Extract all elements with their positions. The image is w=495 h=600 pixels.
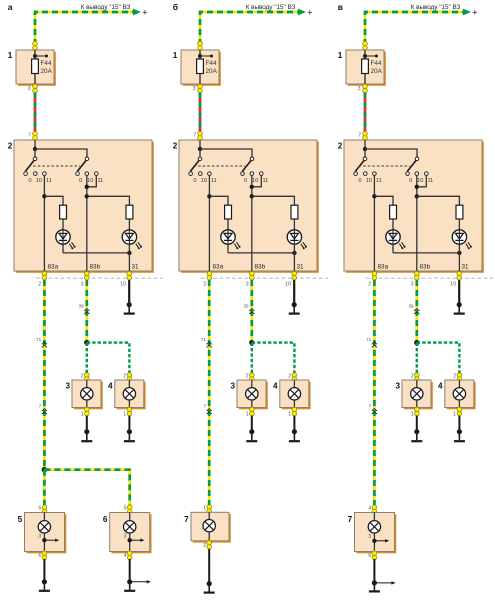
wire LED left to terminal 31 rail (б) xyxy=(228,244,297,255)
switch throw contacts 0 10 11 in box 2 (в) xyxy=(354,172,434,184)
pin 1 at top of lamp box 7 (б) xyxy=(203,505,211,514)
switch pole contacts (pivots) in box 2 (б) xyxy=(198,157,254,161)
junction node to lamps 5 and 6 (а) xyxy=(42,467,48,473)
ground of lamp 7 with branch arrow (в) xyxy=(369,559,396,591)
lamp symbol in box 4 (в) xyxy=(453,380,465,408)
svg-text:6: 6 xyxy=(103,515,108,524)
svg-text:4: 4 xyxy=(273,381,278,390)
lamp symbol in box 3 (в) xyxy=(411,380,423,408)
svg-text:3: 3 xyxy=(230,381,235,390)
pins 2 3 10 under box 2 (б) xyxy=(203,271,296,287)
wire: green to lamp 4 (в) xyxy=(417,343,460,374)
svg-text:К выводу "15" ВЗ: К выводу "15" ВЗ xyxy=(246,4,296,11)
svg-text:0: 0 xyxy=(358,178,361,184)
wire contacts 10-11 to terminal 83b in box 2 (в) xyxy=(415,176,460,271)
svg-text:1: 1 xyxy=(8,51,13,60)
svg-text:3: 3 xyxy=(395,381,400,390)
svg-text:20A: 20A xyxy=(371,68,383,75)
svg-text:3: 3 xyxy=(358,86,361,92)
pin 1 at bottom of lamp box 3 (в) xyxy=(411,407,419,417)
svg-text:11: 11 xyxy=(427,178,433,184)
svg-text:в: в xyxy=(338,2,343,12)
wire junction marker 71 (б) xyxy=(201,337,212,348)
pin 2 at top of lamp box 3 (б) xyxy=(246,373,254,382)
switch feed bus inside box 2 (б) xyxy=(198,140,252,157)
pin at top of fuse box 1 (в) xyxy=(363,41,368,50)
svg-text:1: 1 xyxy=(203,505,206,511)
svg-text:2: 2 xyxy=(123,374,126,380)
svg-text:10: 10 xyxy=(36,178,42,184)
switch throw contacts 0 10 11 in box 2 (б) xyxy=(189,172,269,184)
svg-text:7: 7 xyxy=(358,132,361,138)
svg-text:4: 4 xyxy=(368,506,371,512)
svg-text:б: б xyxy=(173,2,178,12)
svg-text:2: 2 xyxy=(288,374,291,380)
svg-text:83b: 83b xyxy=(90,264,101,271)
wire: green-yellow to lamp 5 (а) xyxy=(43,470,46,506)
svg-text:+: + xyxy=(142,7,147,17)
junction node of lamp feed (в) xyxy=(414,340,419,345)
lamp box 6 (а) xyxy=(103,513,152,554)
terminal labels 83a 83b 31 (в) xyxy=(378,264,470,271)
svg-text:31: 31 xyxy=(462,264,470,271)
svg-text:+: + xyxy=(472,7,477,17)
resistor right in box 2 (а) xyxy=(126,205,133,219)
pin 7 at top of switch box 2 (а) xyxy=(28,131,37,140)
svg-text:+: + xyxy=(307,7,312,17)
lamp symbol in box 3 (а) xyxy=(81,380,93,408)
svg-text:2: 2 xyxy=(368,282,371,288)
svg-text:1: 1 xyxy=(173,51,178,60)
wire LED left to terminal 31 rail (в) xyxy=(393,244,462,255)
LED left in box 2 (в) xyxy=(386,230,406,250)
lamp symbol in box 3 (б) xyxy=(246,380,258,408)
svg-text:10: 10 xyxy=(417,178,423,184)
wire: green-yellow to lamp 6 (а) xyxy=(44,470,129,506)
svg-text:6: 6 xyxy=(38,553,41,559)
wire junction marker 71 (в) xyxy=(366,337,377,348)
switch throw contacts 0 10 11 in box 2 (а) xyxy=(24,172,104,184)
lamp symbol in box 6 (а) xyxy=(124,513,136,552)
svg-text:3: 3 xyxy=(65,381,70,390)
lamp box 4 (в) xyxy=(438,380,476,409)
wire resistor to LED left (в) xyxy=(392,219,394,230)
svg-text:10: 10 xyxy=(450,282,456,288)
svg-text:3: 3 xyxy=(193,86,196,92)
lamp box 3 (а) xyxy=(65,380,102,409)
wire: green to lamp 3 (б) xyxy=(251,343,253,374)
pin 6 at bottom of lamp box 5 (а) xyxy=(38,551,46,560)
wire junction marker 39 (а) xyxy=(78,303,89,314)
plus terminal symbol (в) xyxy=(472,7,477,17)
svg-text:1: 1 xyxy=(81,411,84,417)
internal tap 3 with arrow in box 6 (а) xyxy=(124,534,145,543)
pin 2 at top of lamp box 3 (а) xyxy=(81,373,89,382)
fuse F44 20A symbol (в) xyxy=(362,50,383,84)
wire resistor to LED right (в) xyxy=(458,219,460,230)
svg-text:11: 11 xyxy=(211,178,217,184)
lamp box 5 (а) xyxy=(18,513,67,554)
wire: green-yellow from pin 3 of switch (в) xyxy=(415,280,418,341)
svg-text:20A: 20A xyxy=(206,68,218,75)
connector dashed separation line (б) xyxy=(201,277,328,279)
wire LED right to terminal 31 (а) xyxy=(128,244,130,271)
lamp symbol in box 4 (б) xyxy=(288,380,300,408)
label: К выводу 15 ВЗ (б) xyxy=(246,4,296,11)
wire: black from pin 10 to ground (а) xyxy=(128,280,130,305)
svg-text:К выводу "15" ВЗ: К выводу "15" ВЗ xyxy=(81,4,131,11)
wire contacts 10-11 to terminal 83b in box 2 (б) xyxy=(250,176,295,271)
svg-text:7: 7 xyxy=(369,403,372,408)
svg-text:6: 6 xyxy=(368,553,371,559)
svg-text:F44: F44 xyxy=(41,60,52,67)
lamp box 4 (а) xyxy=(108,380,146,409)
svg-text:2: 2 xyxy=(8,142,13,151)
fuse F44 20A symbol (б) xyxy=(197,50,218,84)
svg-text:7: 7 xyxy=(203,403,206,408)
light switch box 2 (б) xyxy=(173,140,319,273)
svg-text:11: 11 xyxy=(97,178,103,184)
ground of lamp 4 (в) xyxy=(454,416,465,442)
svg-text:3: 3 xyxy=(38,534,41,540)
svg-text:3: 3 xyxy=(124,534,127,540)
ground of lamp 6 with branch arrow (а) xyxy=(124,559,151,591)
fuse box 1 (fuse F44) (а) xyxy=(8,50,56,86)
wire to terminal 83a in box 2 (в) xyxy=(372,176,393,271)
svg-text:5: 5 xyxy=(18,515,23,524)
wire: green-yellow from pin 3 of switch (а) xyxy=(85,280,88,341)
wire junction marker 39 (б) xyxy=(243,303,254,314)
wire: green to lamp 3 (а) xyxy=(86,343,88,374)
terminal labels 83a 83b 31 (а) xyxy=(48,264,140,271)
arrowhead to +15 supply (б) xyxy=(298,9,306,16)
switch feed bus inside box 2 (а) xyxy=(33,140,87,157)
switch levers in box 2 (б) xyxy=(190,161,251,172)
wire: black from pin 10 to ground (б) xyxy=(293,280,295,305)
svg-text:10: 10 xyxy=(285,282,291,288)
svg-text:1: 1 xyxy=(453,411,456,417)
LED left in box 2 (а) xyxy=(56,230,76,250)
column label а xyxy=(8,2,13,12)
svg-text:0: 0 xyxy=(28,178,31,184)
wire: green to lamp 4 (б) xyxy=(252,343,295,374)
arrowhead to +15 supply (а) xyxy=(133,9,141,16)
ground of lamp 4 (б) xyxy=(289,416,300,442)
resistor left in box 2 (в) xyxy=(390,205,397,219)
ground of lamp 3 (а) xyxy=(81,416,92,442)
pin 4 at bottom of lamp box 6 (а) xyxy=(124,551,132,560)
svg-text:11: 11 xyxy=(262,178,268,184)
svg-text:31: 31 xyxy=(132,264,140,271)
wire resistor to LED right (а) xyxy=(128,219,130,230)
lamp box 7 (б) xyxy=(184,512,231,542)
lamp box 3 (в) xyxy=(395,380,432,409)
svg-text:71: 71 xyxy=(201,337,207,342)
svg-text:1: 1 xyxy=(246,411,249,417)
svg-text:31: 31 xyxy=(297,264,305,271)
svg-text:1: 1 xyxy=(411,411,414,417)
svg-text:2: 2 xyxy=(411,374,414,380)
svg-text:3: 3 xyxy=(246,282,249,288)
pin 5 at top of lamp box 6 (а) xyxy=(124,505,132,514)
resistor right in box 2 (в) xyxy=(456,205,463,219)
svg-text:2: 2 xyxy=(81,374,84,380)
pin 1 at bottom of lamp box 3 (б) xyxy=(246,407,254,417)
svg-text:0: 0 xyxy=(193,178,196,184)
wire: green-yellow feed to ignition terminal 15 (а) xyxy=(35,12,134,45)
lamp symbol in box 5 (а) xyxy=(38,513,50,552)
internal tap 3 with arrow in box 5 (а) xyxy=(38,534,59,543)
lamp symbol in box 4 (а) xyxy=(123,380,135,408)
LED right in box 2 (б) xyxy=(287,230,307,250)
lamp box 4 (б) xyxy=(273,380,311,409)
ground of lamp 3 (в) xyxy=(411,416,422,442)
pins 2 3 10 under box 2 (а) xyxy=(38,271,131,287)
svg-text:4: 4 xyxy=(438,381,443,390)
ground of switch pin 10 (а) xyxy=(124,302,135,314)
svg-text:39: 39 xyxy=(408,303,414,308)
wire contacts 10-11 to terminal 83b in box 2 (а) xyxy=(85,176,130,271)
svg-text:0: 0 xyxy=(409,178,412,184)
column label в xyxy=(338,2,343,12)
svg-text:3: 3 xyxy=(81,282,84,288)
LED right in box 2 (в) xyxy=(452,230,472,250)
fuse F44 20A symbol (а) xyxy=(32,50,53,84)
connector dashed separation line (в) xyxy=(366,277,493,279)
wire: green to lamp 3 (в) xyxy=(416,343,418,374)
pin 3 at bottom of fuse box 1 (а) xyxy=(28,84,38,93)
svg-text:0: 0 xyxy=(79,178,82,184)
svg-text:7: 7 xyxy=(39,403,42,408)
svg-text:10: 10 xyxy=(120,282,126,288)
svg-text:7: 7 xyxy=(28,132,31,138)
svg-text:83b: 83b xyxy=(420,264,431,271)
svg-text:83a: 83a xyxy=(213,264,224,271)
wire: green-red from fuse 1 to switch 2 (в) xyxy=(364,93,367,133)
wire: green to lamp 4 (а) xyxy=(87,343,130,374)
ground of lamp 3 (б) xyxy=(246,416,257,442)
svg-text:2: 2 xyxy=(203,543,206,549)
wire: green-yellow from pin 2 to lamp 7 (в) xyxy=(373,280,376,506)
light switch box 2 (а) xyxy=(8,140,154,273)
switch pole contacts (pivots) in box 2 (а) xyxy=(33,157,89,161)
svg-text:39: 39 xyxy=(243,303,249,308)
wire LED right to terminal 31 (в) xyxy=(458,244,460,271)
svg-text:39: 39 xyxy=(78,303,84,308)
pin at top of fuse box 1 (б) xyxy=(198,41,203,50)
wire: green-yellow from pin 2 to lamp 7 (б) xyxy=(208,280,211,505)
svg-text:К выводу "15" ВЗ: К выводу "15" ВЗ xyxy=(411,4,461,11)
pin 2 at top of lamp box 4 (а) xyxy=(123,373,131,382)
wire to terminal 83a in box 2 (б) xyxy=(207,176,228,271)
lamp symbol in box 7 (в) xyxy=(368,513,380,552)
svg-text:7: 7 xyxy=(348,515,353,524)
svg-text:10: 10 xyxy=(201,178,207,184)
lamp symbol in box 7 (б) xyxy=(203,512,215,541)
wire resistor to LED right (б) xyxy=(293,219,295,230)
wire: green-red from fuse 1 to switch 2 (б) xyxy=(199,93,202,133)
wire: green-red from fuse 1 to switch 2 (а) xyxy=(34,93,37,133)
connector dashed separation line (а) xyxy=(36,277,163,279)
pin 1 at bottom of lamp box 3 (а) xyxy=(81,407,89,417)
pin 2 at bottom of lamp box 7 (б) xyxy=(203,540,211,549)
pin 6 at bottom of lamp box 7 (в) xyxy=(368,551,376,560)
svg-text:7: 7 xyxy=(193,132,196,138)
pin at top of fuse box 1 (а) xyxy=(33,41,38,50)
svg-text:71: 71 xyxy=(366,337,372,342)
pin 1 at bottom of lamp box 4 (а) xyxy=(123,407,131,417)
svg-text:20A: 20A xyxy=(41,68,53,75)
internal tap 3 with arrow in box 7 (в) xyxy=(368,534,389,543)
wire LED right to terminal 31 (б) xyxy=(293,244,295,271)
fuse box 1 (fuse F44) (в) xyxy=(338,50,386,86)
label: К выводу 15 ВЗ (а) xyxy=(81,4,131,11)
svg-text:0: 0 xyxy=(244,178,247,184)
svg-text:4: 4 xyxy=(108,381,113,390)
mechanical coupling dashed link in box 2 (б) xyxy=(194,165,246,167)
wire: green-yellow feed to ignition terminal 15 (в) xyxy=(365,12,464,45)
svg-text:F44: F44 xyxy=(371,60,382,67)
pin 2 at top of lamp box 4 (в) xyxy=(453,373,461,382)
svg-text:10: 10 xyxy=(87,178,93,184)
svg-text:а: а xyxy=(8,2,13,12)
ground of switch pin 10 (в) xyxy=(454,302,465,314)
resistor left in box 2 (б) xyxy=(225,205,232,219)
wire: green-yellow from pin 3 of switch (б) xyxy=(250,280,253,341)
svg-text:1: 1 xyxy=(123,411,126,417)
pin 2 at top of lamp box 3 (в) xyxy=(411,373,419,382)
pin 5 at top of lamp box 5 (а) xyxy=(38,505,46,514)
svg-text:11: 11 xyxy=(376,178,382,184)
pin 2 at top of lamp box 4 (б) xyxy=(288,373,296,382)
wire LED left to terminal 31 rail (а) xyxy=(63,244,132,255)
wire junction marker 7 (а) xyxy=(39,403,47,414)
wire: black from pin 10 to ground (в) xyxy=(458,280,460,305)
LED right in box 2 (а) xyxy=(122,230,142,250)
LED left in box 2 (б) xyxy=(221,230,241,250)
pin 7 at top of switch box 2 (б) xyxy=(193,131,202,140)
wire: green-yellow from pin 2 down (а) xyxy=(43,280,46,470)
lamp box 3 (б) xyxy=(230,380,267,409)
pins 2 3 10 under box 2 (в) xyxy=(368,271,461,287)
pin 7 at top of switch box 2 (в) xyxy=(358,131,367,140)
svg-text:10: 10 xyxy=(252,178,258,184)
switch levers in box 2 (а) xyxy=(25,161,86,172)
svg-text:83a: 83a xyxy=(378,264,389,271)
fuse box 1 (fuse F44) (б) xyxy=(173,50,221,86)
pin 3 at bottom of fuse box 1 (б) xyxy=(193,84,203,93)
junction node of lamp feed (а) xyxy=(84,340,89,345)
pin 1 at bottom of lamp box 4 (в) xyxy=(453,407,461,417)
label: К выводу 15 ВЗ (в) xyxy=(411,4,461,11)
pin 4 at top of lamp box 7 (в) xyxy=(368,505,376,514)
svg-text:3: 3 xyxy=(368,534,371,540)
mechanical coupling dashed link in box 2 (в) xyxy=(359,165,411,167)
svg-text:71: 71 xyxy=(36,337,42,342)
switch pole contacts (pivots) in box 2 (в) xyxy=(363,157,419,161)
svg-text:5: 5 xyxy=(38,506,41,512)
mechanical coupling dashed link in box 2 (а) xyxy=(29,165,81,167)
svg-text:F44: F44 xyxy=(206,60,217,67)
svg-text:2: 2 xyxy=(173,142,178,151)
svg-text:83a: 83a xyxy=(48,264,59,271)
light switch box 2 (в) xyxy=(338,140,484,273)
switch levers in box 2 (в) xyxy=(355,161,416,172)
wire junction marker 39 (в) xyxy=(408,303,419,314)
svg-text:3: 3 xyxy=(28,86,31,92)
lamp box 7 (в) xyxy=(348,513,397,554)
svg-text:10: 10 xyxy=(366,178,372,184)
svg-text:2: 2 xyxy=(203,282,206,288)
wire resistor to LED left (б) xyxy=(227,219,229,230)
svg-text:83b: 83b xyxy=(255,264,266,271)
wire junction marker 7 (в) xyxy=(369,403,377,414)
svg-text:7: 7 xyxy=(184,515,189,524)
junction node of lamp feed (б) xyxy=(249,340,254,345)
svg-text:11: 11 xyxy=(46,178,52,184)
plus terminal symbol (а) xyxy=(142,7,147,17)
svg-text:2: 2 xyxy=(246,374,249,380)
arrowhead to +15 supply (в) xyxy=(463,9,471,16)
pin 1 at bottom of lamp box 4 (б) xyxy=(288,407,296,417)
wire resistor to LED left (а) xyxy=(62,219,64,230)
switch feed bus inside box 2 (в) xyxy=(363,140,417,157)
ground of lamp 4 (а) xyxy=(124,416,135,442)
ground of lamp 5 (а) xyxy=(39,559,50,591)
svg-text:2: 2 xyxy=(38,282,41,288)
svg-text:2: 2 xyxy=(338,142,343,151)
wire: green-yellow feed to ignition terminal 15 (б) xyxy=(200,12,299,45)
svg-text:4: 4 xyxy=(124,553,127,559)
pin 3 at bottom of fuse box 1 (в) xyxy=(358,84,368,93)
svg-text:1: 1 xyxy=(338,51,343,60)
wire junction marker 71 (а) xyxy=(36,337,47,348)
ground of lamp 7 (б) xyxy=(204,549,215,593)
column label б xyxy=(173,2,178,12)
svg-text:1: 1 xyxy=(288,411,291,417)
resistor left in box 2 (а) xyxy=(60,205,67,219)
ground of switch pin 10 (б) xyxy=(289,302,300,314)
plus terminal symbol (б) xyxy=(307,7,312,17)
svg-text:5: 5 xyxy=(124,506,127,512)
wire to terminal 83a in box 2 (а) xyxy=(42,176,63,271)
terminal labels 83a 83b 31 (б) xyxy=(213,264,305,271)
svg-text:3: 3 xyxy=(411,282,414,288)
wire junction marker 7 (б) xyxy=(203,403,211,414)
svg-text:2: 2 xyxy=(453,374,456,380)
resistor right in box 2 (б) xyxy=(291,205,298,219)
